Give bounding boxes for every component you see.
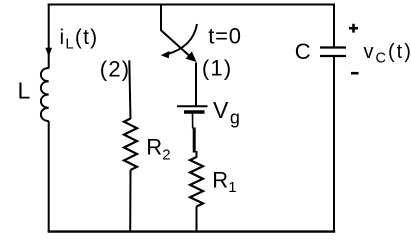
inductor L [41,68,49,121]
svg-text:R2: R2 [146,135,170,164]
svg-text:(2): (2) [100,56,131,81]
wire bottom [48,230,336,232]
switch blade [161,30,194,60]
wire branch2 top [129,60,130,119]
svg-text:L: L [18,77,31,103]
wire node to R1 [193,128,196,153]
svg-text:(1): (1) [202,56,233,81]
wire branch2 bottom [129,170,131,232]
wire branch1 switch to battery [195,63,197,107]
wire left upper [48,4,50,69]
resistor R2 [124,119,137,171]
switch stub from top wire [160,5,162,31]
wire right upper [333,4,335,47]
capacitor C bottom plate [320,55,346,57]
svg-text:Vg: Vg [213,97,240,128]
svg-text:iL(t): iL(t) [60,26,99,53]
svg-text:C: C [295,39,311,64]
capacitor C top plate [320,46,346,48]
minus sign vC [351,72,359,75]
svg-text:vC(t): vC(t) [364,41,411,67]
wire R1 stub [196,151,198,158]
svg-text:t=0: t=0 [208,24,242,49]
switch blade arrowhead [186,51,197,62]
battery Vg short plate [184,110,205,113]
svg-text:R1: R1 [212,168,236,197]
switch motion arc [167,24,198,54]
resistor R1 [190,157,203,207]
plus sign vC [349,24,358,33]
current arrow iL [45,48,52,57]
switch motion arrowhead [161,51,170,59]
wire battery to node [192,114,194,129]
wire left lower [48,121,50,232]
battery Vg long plate [177,105,208,107]
wire right lower [333,57,335,232]
wire branch1 bottom [196,207,198,233]
wire top [48,4,335,6]
